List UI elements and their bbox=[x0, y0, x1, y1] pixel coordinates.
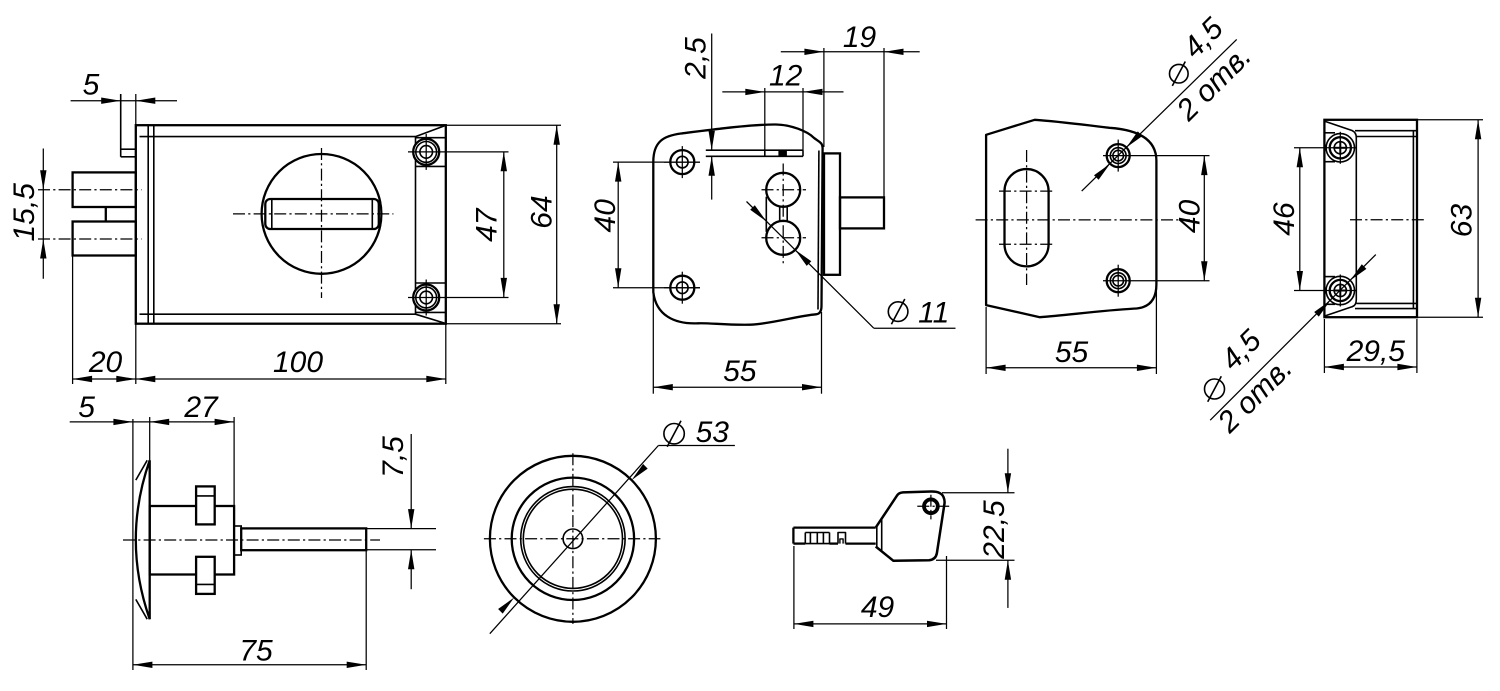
svg-text:29,5: 29,5 bbox=[1346, 335, 1406, 368]
svg-text:47: 47 bbox=[471, 207, 504, 242]
svg-text:20: 20 bbox=[88, 346, 123, 379]
svg-text:49: 49 bbox=[861, 591, 895, 624]
svg-text:40: 40 bbox=[589, 199, 622, 233]
svg-text:2,5: 2,5 bbox=[680, 37, 713, 80]
svg-text:55: 55 bbox=[1055, 336, 1089, 369]
svg-text:22,5: 22,5 bbox=[978, 500, 1011, 560]
svg-text:55: 55 bbox=[723, 355, 757, 388]
svg-text:19: 19 bbox=[843, 21, 877, 54]
svg-text:53: 53 bbox=[696, 416, 730, 449]
svg-text:27: 27 bbox=[183, 391, 219, 424]
svg-text:7,5: 7,5 bbox=[377, 436, 410, 478]
svg-text:15,5: 15,5 bbox=[8, 183, 41, 242]
svg-text:64: 64 bbox=[526, 195, 559, 228]
svg-text:11: 11 bbox=[918, 297, 949, 330]
svg-text:46: 46 bbox=[1268, 202, 1301, 236]
svg-text:12: 12 bbox=[769, 60, 803, 93]
svg-text:40: 40 bbox=[1174, 199, 1207, 233]
svg-text:63: 63 bbox=[1446, 204, 1479, 238]
svg-text:5: 5 bbox=[78, 391, 95, 424]
svg-text:75: 75 bbox=[239, 635, 273, 668]
svg-text:5: 5 bbox=[83, 69, 100, 102]
svg-text:100: 100 bbox=[273, 346, 323, 379]
